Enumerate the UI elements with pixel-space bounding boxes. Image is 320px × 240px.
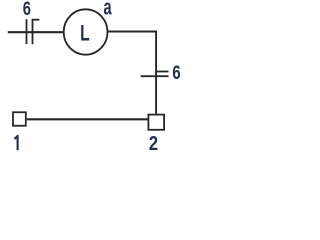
wire: left lead into capacitor and lamp — [8, 31, 65, 33]
wire: terminal 1 to terminal 2 — [27, 118, 148, 120]
svg-text:6: 6 — [172, 61, 180, 84]
capacitor C1 plate 2 (with top hook) — [33, 20, 40, 45]
capacitor C2 plate 2 (short) — [156, 71, 168, 73]
svg-text:a: a — [104, 0, 113, 19]
capacitor C2 plate 1 (long, crossing) — [141, 75, 169, 77]
terminal 1 box — [13, 112, 26, 126]
lamp U1 circle — [64, 9, 108, 54]
capacitor C1 plate 1 — [26, 19, 28, 44]
terminal 2 box — [148, 115, 164, 130]
svg-text:2: 2 — [149, 131, 158, 154]
wire: lamp to top-right corner and down to terminal 2 — [107, 32, 156, 115]
svg-text:6: 6 — [23, 0, 31, 20]
svg-text:L: L — [80, 22, 90, 46]
terminal 1 label — [15, 136, 18, 150]
